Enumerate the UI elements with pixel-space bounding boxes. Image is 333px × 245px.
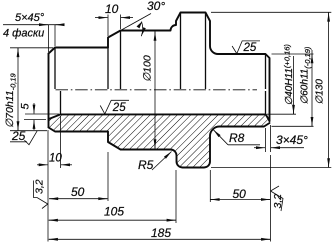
part left face: [48, 54, 50, 128]
svg-text:4 фаски: 4 фаски: [3, 28, 44, 40]
dim 50 right: [210, 170, 270, 202]
svg-text:3,2: 3,2: [272, 194, 284, 209]
right end chamfer edge circle: [265, 54, 267, 89]
svg-text:10: 10: [105, 2, 119, 16]
svg-text:3,2: 3,2: [34, 179, 46, 194]
dim 5 (bore chamfer height): [24, 103, 59, 130]
svg-text:25: 25: [243, 42, 257, 54]
surface mark 3,2 right: [271, 186, 284, 211]
svg-text:5×45°: 5×45°: [15, 12, 45, 24]
dim 3x45 right chamfer: [254, 125, 304, 152]
part lower section profile: [49, 114, 270, 167]
svg-text:105: 105: [104, 205, 124, 219]
svg-text:25: 25: [11, 129, 26, 143]
dim ∅40H11 right: [267, 56, 296, 114]
svg-text:25: 25: [112, 102, 126, 114]
chamfer edge circle left ∅70: [54, 48, 56, 90]
svg-text:∅60h11(-0,19): ∅60h11(-0,19): [300, 46, 313, 104]
part outer profile (top half view): [49, 13, 270, 122]
dim 185: [49, 155, 271, 242]
surface mark 3,2 bottom-left: [34, 181, 48, 209]
dim 5x45 chamfer leader top-left: [3, 25, 63, 52]
dim ∅130 right: [211, 12, 331, 167]
dim ∅70h11 left: [10, 48, 53, 131]
surface mark √25 on bore: [100, 100, 129, 114]
dim 30° cone angle: [121, 14, 152, 37]
cone base edge circle ∅100: [120, 31, 122, 90]
svg-text:10: 10: [49, 153, 62, 165]
svg-text:50: 50: [233, 187, 247, 201]
flange chamfer edge circles: [180, 13, 182, 90]
svg-text:30°: 30°: [147, 0, 165, 13]
hatched section (lower half cut): [49, 114, 270, 167]
svg-text:∅40H11(+0,16): ∅40H11(+0,16): [283, 44, 296, 106]
shoulder edge circle at cone start: [107, 48, 109, 90]
leader R8: [213, 130, 260, 145]
dim ∅100 vertical: [154, 32, 156, 149]
svg-text:∅130: ∅130: [315, 79, 326, 105]
hole chamfer edge circles inside bore: [60, 91, 62, 114]
svg-text:50: 50: [71, 185, 85, 199]
dim 10 top (cone length): [95, 15, 133, 37]
svg-text:∅100: ∅100: [142, 55, 154, 82]
svg-text:3×45°: 3×45°: [276, 133, 308, 147]
dim 10 bottom-left (bore chamfer depth): [37, 116, 72, 242]
dim 105: [49, 170, 176, 223]
svg-text:∅70h11-0,19: ∅70h11-0,19: [4, 72, 18, 128]
centerline axis: [56, 89, 258, 91]
dim ∅60h11 right: [272, 50, 314, 126]
surface mark 25 bottom-left: [10, 131, 37, 145]
svg-text:5: 5: [20, 103, 32, 110]
dim 50 left: [49, 152, 108, 201]
svg-text:185: 185: [151, 226, 171, 240]
leader R5: [152, 152, 172, 171]
svg-text:R5: R5: [138, 158, 154, 172]
svg-text:R8: R8: [229, 131, 245, 145]
surface mark √25 on ∅60: [232, 41, 260, 54]
